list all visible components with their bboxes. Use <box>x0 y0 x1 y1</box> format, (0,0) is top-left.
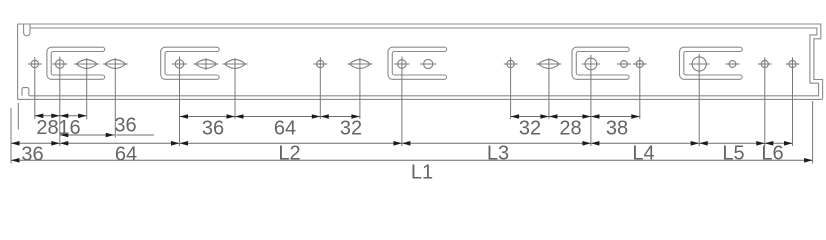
hole D1 (circle 511) <box>504 57 518 119</box>
rail inner bottom edge <box>29 83 819 96</box>
bracket 1 <box>47 47 105 79</box>
svg-text:L6: L6 <box>761 143 783 165</box>
svg-text:36: 36 <box>21 144 43 166</box>
wire <box>18 24 823 99</box>
rail inner top edge <box>30 28 817 83</box>
hole A1 (circle 35) <box>28 57 42 119</box>
top notch <box>24 25 30 36</box>
bracket 4 <box>572 47 629 79</box>
dimension line row1 middle (36/64/32) <box>180 116 360 118</box>
svg-text:28: 28 <box>36 117 58 139</box>
extension line left datum x=11 <box>10 108 12 164</box>
slot C2 (360) <box>347 58 372 119</box>
hole E3 (circle 765) <box>758 57 772 146</box>
svg-text:64: 64 <box>274 118 296 140</box>
hole D5 (circle 640) <box>633 57 647 119</box>
slot A4 (115) <box>103 58 128 138</box>
extension line right datum x=812.6 <box>812 101 814 164</box>
rail outer top edge <box>18 24 823 99</box>
svg-text:L5: L5 <box>722 143 744 165</box>
hole C4 (plain circle 428) <box>420 59 436 68</box>
bracket 5 <box>680 47 743 79</box>
svg-text:38: 38 <box>606 118 628 140</box>
rail left end edge <box>17 24 19 99</box>
svg-text:64: 64 <box>115 144 137 166</box>
hole B1 (circle 180) <box>172 57 187 147</box>
slot A3 (87) <box>74 58 99 119</box>
hole D4 (plain circle 624) <box>617 61 631 68</box>
dimension line row1 right (32/28/38) <box>511 116 640 118</box>
dimension line row3 (L1) <box>11 159 813 161</box>
slot B2 (206) <box>194 58 219 70</box>
svg-text:36: 36 <box>114 115 136 137</box>
extension line rail left edge x=18.3 <box>17 103 19 130</box>
rail outer bottom edge <box>18 98 823 100</box>
svg-text:L4: L4 <box>632 143 654 165</box>
hole D3 (circle 591) <box>582 55 600 146</box>
bracket 2 <box>161 47 219 79</box>
svg-text:28: 28 <box>559 118 581 140</box>
svg-text:16: 16 <box>58 117 80 139</box>
hole C3 (circle 402) <box>394 57 409 147</box>
svg-text:36: 36 <box>202 118 224 140</box>
svg-text:L3: L3 <box>487 143 509 165</box>
hole A2 (circle 60) <box>52 57 67 147</box>
hole C1 (circle 320) <box>313 57 327 119</box>
slot B3 (235) <box>223 58 248 119</box>
dimension line row1 left (28/16) <box>35 115 87 117</box>
svg-text:32: 32 <box>340 118 362 140</box>
svg-text:32: 32 <box>519 118 541 140</box>
hole E4 (circle 792) <box>786 57 800 146</box>
dimension line row2 (36/64/L2..L6) <box>11 142 793 144</box>
slot D2 (549) <box>536 58 561 119</box>
dimension leader 36 (60-115) <box>60 134 115 136</box>
hole E1 (circle 699) <box>689 54 710 146</box>
bracket 3 <box>388 47 447 79</box>
bottom notch <box>22 88 29 96</box>
svg-text:L2: L2 <box>278 143 300 165</box>
svg-text:L1: L1 <box>411 162 433 184</box>
hole E2 (plain circle 732) <box>726 61 740 68</box>
